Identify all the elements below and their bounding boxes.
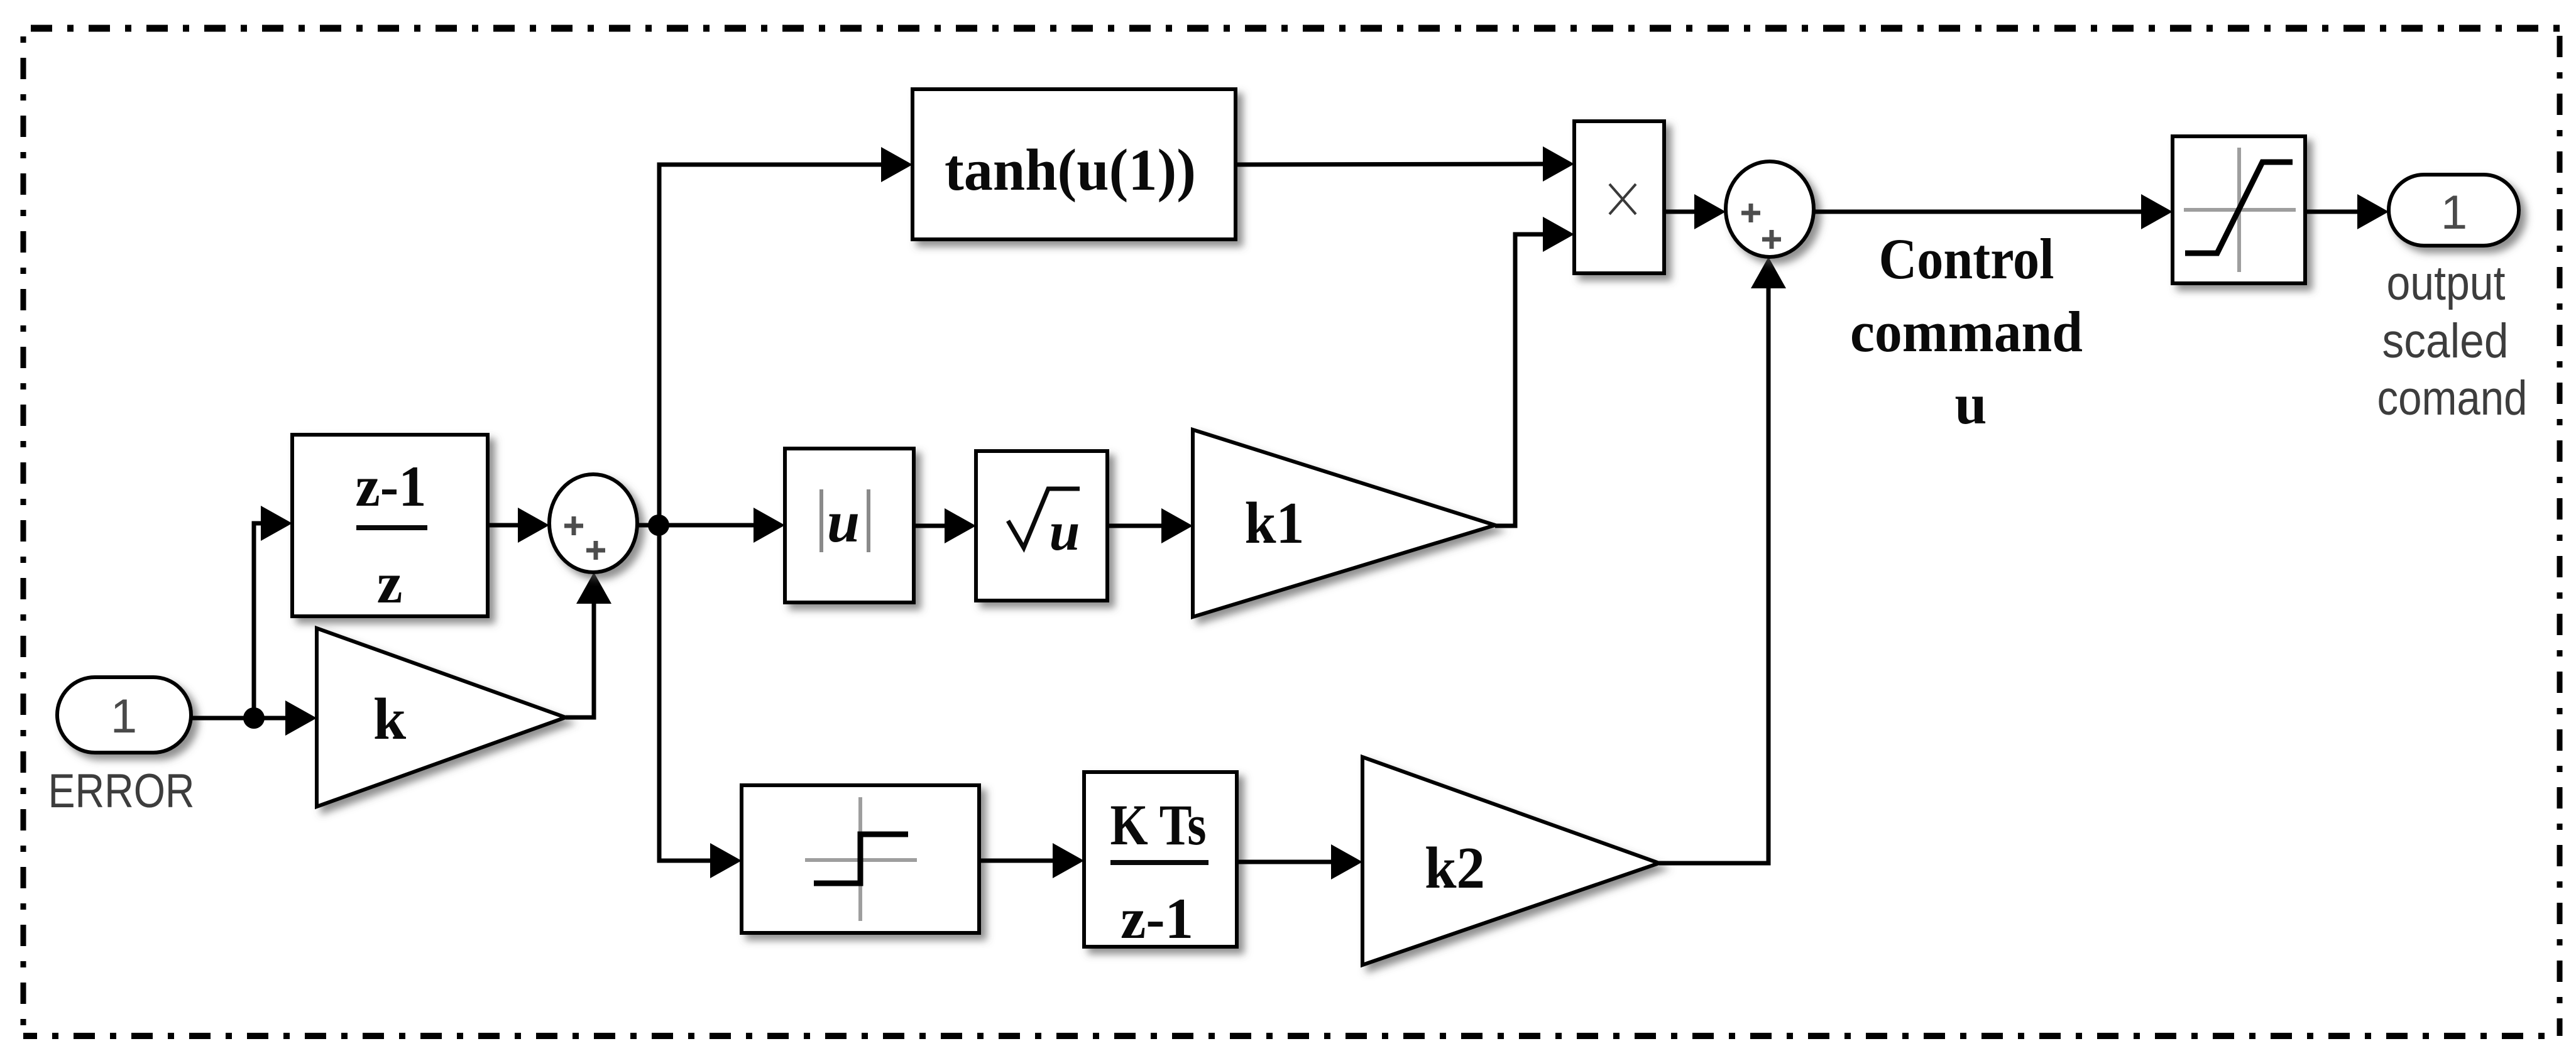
wire KTs out to gain k2 <box>1237 844 1362 879</box>
svg-text:comand: comand <box>2377 371 2528 425</box>
svg-text:u: u <box>1050 501 1080 562</box>
svg-text:scaled: scaled <box>2382 314 2509 368</box>
output port 1 <box>2389 175 2519 246</box>
svg-text:output: output <box>2387 256 2506 310</box>
wire gain k out up to sum S1 bottom <box>566 572 611 717</box>
svg-text:ERROR: ERROR <box>48 765 195 818</box>
node junction J2 <box>648 515 669 536</box>
wire k1 out up to product lower input <box>1495 217 1574 526</box>
wire J2 down to relay input <box>659 525 742 878</box>
node junction J1 <box>243 707 265 729</box>
product block x <box>1574 121 1664 273</box>
wire S2 out to saturation <box>1814 194 2173 229</box>
block abs |u| <box>785 449 914 602</box>
svg-text:u: u <box>827 489 860 555</box>
wire tanh out to product upper input <box>1236 146 1574 182</box>
block saturation <box>2173 136 2305 283</box>
sum S2 <box>1726 161 1814 257</box>
svg-text:k2: k2 <box>1425 836 1485 901</box>
svg-text:z-1: z-1 <box>1121 886 1193 950</box>
svg-text:Control: Control <box>1879 227 2054 291</box>
wire port1 to junction <box>191 716 254 721</box>
gain k <box>317 628 566 807</box>
wire product out to sum S2 <box>1664 194 1726 229</box>
svg-text:k: k <box>373 687 407 752</box>
svg-text:z-1: z-1 <box>356 454 427 518</box>
wire J2 up to tanh input <box>659 147 913 525</box>
svg-text:1: 1 <box>111 690 137 743</box>
block K Ts / z-1 (discrete integrator) <box>1084 772 1237 947</box>
wire abs out to sqrt input <box>914 508 976 543</box>
label output scaled comand <box>2377 256 2528 425</box>
label ERROR <box>48 765 195 818</box>
gain k2 <box>1362 757 1659 965</box>
input port 1 <box>57 677 191 753</box>
wire J2 to abs input <box>659 508 785 543</box>
wire sqrt out to gain k1 <box>1107 508 1193 543</box>
svg-text:u: u <box>1954 372 1987 436</box>
wire J1 up to z-1/z input <box>254 506 292 718</box>
svg-text:k1: k1 <box>1245 491 1305 556</box>
svg-text:1: 1 <box>2441 186 2467 239</box>
wire z-1/z out to sum S1 <box>488 508 549 543</box>
gain k1 <box>1193 430 1495 617</box>
svg-text:K Ts: K Ts <box>1110 793 1207 857</box>
sum S1 <box>549 474 637 572</box>
wire saturation out to output port <box>2305 194 2389 229</box>
label Control command u <box>1850 227 2083 436</box>
wire J1 to gain k input <box>254 700 317 736</box>
svg-text:tanh(u(1)): tanh(u(1)) <box>945 138 1196 203</box>
block relay (sign) <box>742 785 979 933</box>
svg-text:z: z <box>377 551 403 615</box>
wire S1 out to junction J2 <box>637 523 659 528</box>
block sqrt <box>976 451 1107 601</box>
svg-text:command: command <box>1850 300 2083 364</box>
wire relay out to KTs block <box>979 843 1084 878</box>
wire k2 out up to sum S2 bottom <box>1659 257 1786 863</box>
block z-1/z (discrete derivative) <box>292 435 488 616</box>
block tanh(u(1)) <box>913 89 1236 239</box>
